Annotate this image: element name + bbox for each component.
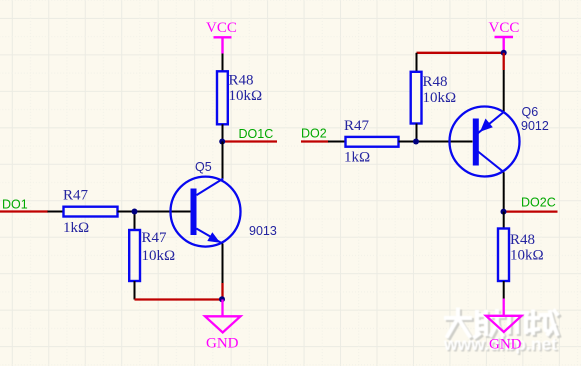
resistor R47 series 1k (right) <box>346 137 399 147</box>
wire DO1 stub <box>0 210 48 212</box>
svg-text:10kΩ: 10kΩ <box>142 248 176 264</box>
svg-text:Q5: Q5 <box>195 160 212 174</box>
wire VCC to emitter red segment <box>503 53 505 70</box>
svg-text:VCC: VCC <box>489 20 520 36</box>
svg-text:DO2: DO2 <box>301 127 327 141</box>
wire ground rail red <box>135 298 223 300</box>
wire base node to Q6 <box>416 141 473 143</box>
wire DO2C stub <box>506 210 558 212</box>
wire VCC to R48 <box>222 54 224 72</box>
wire R47 to base node <box>118 211 135 213</box>
svg-text:GND: GND <box>206 336 239 352</box>
svg-text:9012: 9012 <box>521 119 549 133</box>
wire DO1C stub <box>224 140 277 142</box>
wire node to R48 <box>503 212 505 229</box>
svg-text:10kΩ: 10kΩ <box>229 88 263 104</box>
wire down to R48 <box>416 53 418 72</box>
svg-text:9013: 9013 <box>249 224 277 238</box>
wire DO1 to R47 <box>48 211 64 213</box>
svg-text:DO1: DO1 <box>2 198 28 212</box>
wire collector Q6 <box>503 172 505 211</box>
node VCC junction <box>501 50 507 56</box>
svg-text:R47: R47 <box>63 188 89 204</box>
node base Q5 junction <box>132 209 138 215</box>
svg-text:VCC: VCC <box>206 20 237 36</box>
svg-text:GND: GND <box>489 337 522 353</box>
node DO2C junction <box>501 209 507 215</box>
wire R48 to ground <box>503 281 505 299</box>
svg-text:DO2C: DO2C <box>521 196 556 210</box>
svg-text:R47: R47 <box>142 230 168 246</box>
power symbol VCC (right) <box>489 20 520 53</box>
wire R48 to node DO1C <box>222 124 224 141</box>
resistor R47 series 1k (left) <box>64 207 118 217</box>
wire R47 bottom <box>134 281 136 300</box>
node ground junction <box>219 296 225 302</box>
svg-text:R48: R48 <box>510 232 535 248</box>
wire R48 to base node <box>416 124 418 142</box>
svg-text:DO1C: DO1C <box>239 127 274 141</box>
svg-text:10kΩ: 10kΩ <box>423 90 457 106</box>
wire VCC to R48 red <box>417 52 504 54</box>
svg-text:1kΩ: 1kΩ <box>344 149 370 165</box>
ground symbol GND (left) <box>205 300 241 352</box>
power symbol VCC (left) <box>206 20 237 54</box>
transistor Q6 <box>450 107 520 177</box>
resistor R47 pulldown 10k (left) <box>129 230 140 281</box>
resistor R48 pull-up (left) <box>217 71 228 124</box>
resistor R48 pulldown (right) <box>498 229 509 282</box>
wire base node to pulldown R47 <box>134 212 136 231</box>
wire to Q6 emitter <box>503 70 505 112</box>
svg-text:R47: R47 <box>344 118 370 134</box>
svg-text:Q6: Q6 <box>522 105 539 119</box>
svg-text:R48: R48 <box>229 73 254 89</box>
transistor Q5 <box>171 177 241 247</box>
svg-text:R48: R48 <box>423 74 448 90</box>
svg-text:10kΩ: 10kΩ <box>510 248 544 264</box>
node DO1C junction <box>219 139 225 145</box>
watermark <box>443 310 559 356</box>
wire collector Q5 <box>222 142 224 179</box>
wire DO2 to R47 <box>328 141 346 143</box>
wire emitter Q5 <box>222 244 224 284</box>
wire DO2 stub <box>301 140 329 142</box>
resistor R48 base pull-up (right) <box>411 72 422 124</box>
wire R47 to base node <box>399 141 417 143</box>
svg-text:1kΩ: 1kΩ <box>63 220 89 236</box>
ground symbol GND (right) <box>486 299 522 353</box>
wire emitter to ground node red <box>221 283 223 300</box>
node base Q6 junction <box>413 139 419 145</box>
wire base node to Q5 <box>135 211 191 213</box>
